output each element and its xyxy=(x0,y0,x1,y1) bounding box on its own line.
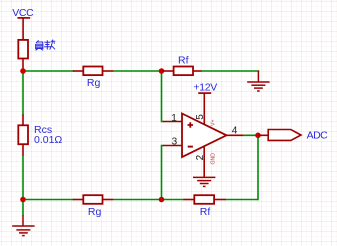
port ADC xyxy=(268,130,328,142)
svg-text:1: 1 xyxy=(171,113,177,124)
wire: bottom junction stub to ground xyxy=(22,200,24,216)
value label 负载 (hand-drawn hanzi) xyxy=(36,40,56,51)
junction: Rg / Rf / pin1 node xyxy=(159,68,165,74)
wire: top rail from VCC junction to Rg xyxy=(23,70,74,72)
ground (op-amp pin 2) xyxy=(193,177,215,186)
svg-text:ADC: ADC xyxy=(307,130,329,142)
svg-text:0.01Ω: 0.01Ω xyxy=(34,134,62,146)
wire: right rail up to output junction xyxy=(257,135,259,200)
svg-text:VCC: VCC xyxy=(12,7,34,19)
junction: pin 3 / Rg / Rf bottom node xyxy=(159,197,165,203)
power VCC xyxy=(12,7,34,40)
svg-text:4: 4 xyxy=(232,126,238,137)
resistor 负载 (load) xyxy=(18,40,28,71)
resistor Rf (top) xyxy=(162,54,202,75)
pin 4 (op-amp output) xyxy=(226,126,243,137)
svg-text:3: 3 xyxy=(172,136,178,147)
svg-text:GND: GND xyxy=(211,153,217,165)
svg-text:5: 5 xyxy=(195,114,206,120)
wire: bottom rail Rg to junction xyxy=(113,199,184,201)
pin 1 (op-amp in+) xyxy=(163,113,182,124)
pin 5 (op-amp V+) xyxy=(195,114,217,126)
wire: bottom rail left junction to Rg xyxy=(23,199,74,201)
svg-text:V+: V+ xyxy=(210,120,216,127)
power +12V xyxy=(193,82,217,125)
svg-text:2: 2 xyxy=(195,154,206,160)
svg-text:Rg: Rg xyxy=(88,206,102,218)
resistor Rf (bottom) xyxy=(184,195,226,218)
svg-text:Rg: Rg xyxy=(87,77,101,89)
wire: output junction to port xyxy=(258,134,269,136)
svg-text:+12V: +12V xyxy=(193,82,217,94)
wire: bottom Rf to right rail corner xyxy=(225,199,258,201)
wire: middle junction down to pin 1 xyxy=(162,71,164,122)
wire: top rail Rg to middle junction xyxy=(113,70,162,72)
resistor Rg (top) xyxy=(73,67,113,89)
wire: output pin 4 to junction xyxy=(242,134,259,136)
wire: left rail Rcs down to bottom junction xyxy=(22,155,24,200)
wire: pin 3 down to bottom junction xyxy=(162,146,164,200)
junction: VCC / Rg / Rcs node xyxy=(20,68,26,74)
wire: top rail Rf to ground xyxy=(201,70,259,72)
resistor Rg (bottom) xyxy=(73,195,113,218)
junction: output node xyxy=(255,133,261,139)
pin 2 (op-amp GND) xyxy=(195,146,217,177)
op-amp U1 xyxy=(182,114,227,158)
resistor Rcs 0.01ohm xyxy=(18,115,62,156)
svg-text:Rf: Rf xyxy=(200,206,211,218)
svg-text:Rf: Rf xyxy=(178,54,189,66)
pin 3 (op-amp in-) xyxy=(163,136,182,147)
ground (top right) xyxy=(247,71,269,92)
ground (bottom left) xyxy=(12,215,34,236)
junction: bottom left node xyxy=(20,197,26,203)
wire: left rail VCC junction down to Rcs xyxy=(22,71,24,116)
